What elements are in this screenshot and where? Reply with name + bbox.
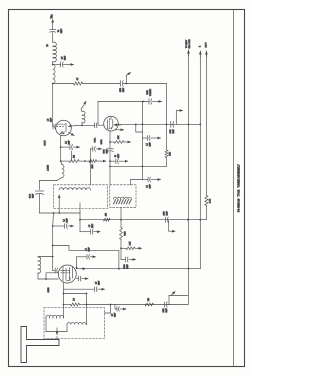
wire plate node y=125.4 — [78, 124, 94, 126]
capacitor C12 series — [165, 217, 167, 222]
ground — [152, 101, 161, 103]
wire y=268.7 IF out — [77, 268, 201, 270]
resistor R11 220 — [145, 303, 154, 306]
wire — [52, 32, 54, 42]
tube V3 cathode — [67, 278, 71, 281]
tube V2 cathode arrow — [115, 129, 124, 131]
wire bus y=304.5 — [87, 304, 188, 306]
tube V3 cathode wire — [63, 283, 65, 294]
node R4 — [109, 141, 111, 143]
node I — [120, 219, 122, 221]
wire y=331.5 — [46, 331, 67, 333]
svg-text:1.5: 1.5 — [96, 282, 98, 285]
node 110 — [110, 304, 112, 306]
bus A arrow — [188, 51, 190, 57]
tube V3 plate — [72, 267, 74, 279]
node H — [53, 212, 55, 214]
tube V2 plate arrow — [114, 124, 121, 126]
bus line B — [199, 51, 201, 269]
wire y=213 — [40, 212, 81, 214]
wire — [120, 240, 122, 260]
node J — [187, 219, 189, 221]
svg-text:1.5: 1.5 — [48, 119, 50, 122]
svg-text:1.5: 1.5 — [86, 248, 88, 251]
svg-text:75Ω: 75Ω — [50, 14, 53, 19]
arrow tuning L6 — [58, 195, 60, 201]
node K — [199, 219, 201, 221]
resistor R4 10K — [110, 141, 114, 143]
wire — [52, 25, 54, 30]
capacitor C11 trimmer — [35, 190, 43, 192]
svg-text:1.5: 1.5 — [64, 219, 66, 222]
tube V2 plate — [112, 120, 114, 128]
svg-text:OSC.: OSC. — [95, 137, 97, 142]
node fine tuning — [142, 101, 144, 103]
tube V1 plate arrow — [69, 124, 79, 127]
ground — [90, 256, 95, 258]
capacitor C24 grid — [53, 270, 55, 272]
wire — [66, 325, 68, 332]
node A — [52, 64, 54, 66]
ground L — [168, 220, 170, 232]
tube V1 ground arrow — [69, 133, 75, 136]
dashed box T1 — [54, 185, 108, 209]
resistor R8 6800 — [120, 220, 122, 228]
svg-text:1.5: 1.5 — [147, 143, 149, 146]
wire — [86, 294, 88, 325]
svg-text:6CY5: 6CY5 — [45, 140, 47, 146]
capacitor C22 — [80, 231, 90, 233]
capacitor C10 20MMF — [110, 160, 115, 162]
svg-text:TO J110Y: TO J110Y — [186, 39, 188, 48]
svg-text:240 V: 240 V — [205, 42, 207, 48]
wire — [45, 318, 47, 332]
dashed box T2 — [110, 185, 136, 208]
inductor L7 shaded slug — [114, 197, 132, 199]
wire — [98, 124, 104, 126]
capacitor C19 series — [164, 302, 166, 307]
capacitor C20 branch y138 — [143, 137, 147, 139]
wire — [166, 158, 168, 167]
capacitor C8 fine tuning — [148, 99, 150, 104]
node loop l — [63, 293, 65, 295]
svg-text:220: 220 — [148, 298, 150, 301]
wire osc grid leak — [90, 161, 92, 185]
arrow to heater B — [175, 111, 177, 125]
wire — [93, 124, 96, 126]
node l8 — [52, 256, 54, 258]
node plate — [76, 267, 78, 269]
wire y=219.7 — [80, 219, 206, 221]
wire — [64, 304, 71, 306]
tube V3 envelope — [58, 265, 76, 283]
IF direction arrow — [80, 268, 86, 270]
wire — [63, 64, 68, 66]
svg-text:TUNING: TUNING — [150, 88, 152, 96]
arrow L3 to B+ — [81, 107, 82, 112]
inductor L8 — [38, 257, 41, 273]
capacitor C17 — [64, 288, 95, 290]
wire — [109, 152, 111, 185]
svg-text:1.5: 1.5 — [62, 57, 64, 60]
node riser — [89, 160, 91, 162]
node n — [45, 278, 47, 280]
wire — [38, 273, 58, 279]
tube V3 grid — [61, 270, 70, 272]
node L — [120, 247, 122, 249]
svg-text:3300: 3300 — [124, 265, 126, 269]
svg-text:1.5: 1.5 — [112, 314, 114, 317]
capacitor C1 — [50, 29, 56, 31]
ground — [151, 137, 161, 139]
resistor R9 4.7K — [121, 247, 126, 249]
resistor R6b — [89, 160, 97, 163]
wire — [83, 83, 121, 85]
tube V2 envelope — [104, 116, 119, 131]
wire y=166.4 — [110, 165, 167, 167]
ground — [94, 231, 100, 233]
svg-text:FINE: FINE — [147, 90, 149, 95]
ground — [129, 259, 136, 261]
node if 118 — [118, 268, 120, 270]
bus line A — [188, 50, 190, 305]
svg-text:1000: 1000 — [170, 130, 172, 134]
inductor L6 — [59, 188, 91, 190]
page border frame — [9, 10, 245, 367]
riser arrow — [169, 295, 188, 297]
wire x=142.5 — [142, 102, 144, 180]
svg-text:1500: 1500 — [120, 88, 122, 92]
node r10b — [86, 304, 88, 306]
node x80 — [79, 219, 81, 221]
wire — [39, 181, 41, 190]
svg-text:4.5MH: 4.5MH — [48, 164, 50, 170]
inductor L9 — [46, 315, 64, 318]
wire — [71, 151, 73, 161]
bus C arrow — [205, 52, 207, 58]
wire — [46, 273, 58, 279]
wire — [79, 203, 81, 213]
wire corner down x=166.5 — [166, 84, 168, 151]
node loop r — [86, 293, 88, 295]
tube V1 screen — [58, 123, 66, 125]
resistor R10 7.5 — [71, 303, 80, 306]
wire grid V1 — [52, 84, 54, 127]
node if A — [188, 268, 190, 270]
arrow to AGC — [125, 76, 127, 84]
wire — [143, 179, 149, 181]
bus line C — [205, 51, 207, 196]
node x142 y124 — [142, 124, 144, 126]
svg-text:7.5: 7.5 — [74, 298, 76, 301]
capacitor C18 — [115, 305, 117, 310]
wire — [168, 304, 169, 306]
node 20mmf branch — [109, 160, 111, 162]
node r6 — [84, 160, 86, 162]
node r10a — [63, 304, 65, 306]
ground — [96, 148, 102, 150]
capacitor C21 y179 — [147, 177, 149, 182]
wire — [39, 194, 41, 213]
svg-text:220: 220 — [74, 155, 76, 158]
tube V1 grid — [57, 126, 64, 128]
riser cap 90.2 — [89, 149, 91, 161]
tube V2 pins — [108, 117, 112, 129]
ground — [119, 160, 128, 162]
bus B arrow — [199, 52, 201, 58]
capacitor C23 — [53, 225, 64, 227]
ground — [73, 146, 79, 148]
capacitor C16 — [77, 278, 79, 280]
ground — [151, 179, 160, 181]
node E — [199, 124, 201, 126]
node B — [52, 83, 54, 85]
wire x=80 down — [79, 213, 81, 232]
arrow end — [101, 160, 106, 162]
tube V2 cathode — [108, 127, 112, 129]
wire — [81, 123, 83, 126]
tube V2 grid — [108, 119, 110, 128]
node H2 — [58, 212, 60, 214]
wire — [53, 64, 61, 66]
inductor L1 — [53, 42, 57, 62]
node x110 y166 — [109, 166, 111, 168]
capacitor C14 — [121, 259, 125, 261]
svg-text:S20 & P25: S20 & P25 — [189, 39, 191, 48]
node jog — [135, 124, 137, 126]
svg-text:1.5: 1.5 — [89, 225, 91, 228]
ground — [124, 141, 131, 143]
inductor L5 — [62, 165, 64, 178]
capacitor C2 — [60, 62, 62, 67]
wire jog — [136, 124, 143, 132]
tube V3 pins — [63, 267, 70, 281]
capacitor C4 grid — [52, 126, 54, 128]
wire x=52.7 down — [52, 213, 55, 226]
resistor R5 2.7K — [205, 196, 208, 206]
tube V2 cathode wire — [109, 131, 111, 149]
wire top loop — [64, 293, 87, 295]
wire — [63, 294, 65, 319]
antenna terminal arrow — [52, 20, 54, 26]
inner right border line — [233, 10, 235, 367]
wire — [52, 62, 54, 65]
node y124 x166 — [166, 124, 168, 126]
dashed box T3 — [44, 308, 105, 339]
wire — [61, 161, 62, 164]
svg-text:6800: 6800 — [125, 231, 127, 235]
wire — [40, 178, 62, 181]
capacitor C3 1500MMF — [119, 81, 121, 87]
arrow T3 down — [56, 328, 58, 335]
node x142 y166 — [142, 166, 144, 168]
ground — [120, 308, 126, 310]
resistor R6a — [69, 160, 79, 163]
inductor L3 plate coil — [82, 111, 85, 123]
tube V1 plate — [65, 124, 67, 132]
svg-text:4500: 4500 — [92, 164, 94, 168]
node L3 tap — [81, 125, 83, 127]
resistor R7 270 — [103, 218, 110, 221]
svg-text:1.5: 1.5 — [66, 141, 68, 144]
node cath — [60, 160, 62, 162]
svg-text:1000: 1000 — [163, 309, 165, 313]
tube V1 cathode — [61, 132, 64, 134]
ground — [68, 225, 74, 227]
wire — [56, 337, 58, 340]
wire — [38, 256, 53, 259]
wire y=161.1 — [61, 160, 69, 162]
svg-text:1.5: 1.5 — [147, 185, 149, 188]
ground lug outline — [21, 327, 59, 363]
wire — [97, 160, 101, 162]
inductor L10 — [67, 323, 86, 325]
wire out — [105, 305, 111, 314]
capacitor C5 cathode bypass — [61, 146, 70, 148]
node v3 corner — [52, 245, 54, 247]
wire — [120, 207, 122, 219]
capacitor C6 osc grid — [94, 123, 96, 128]
resistor R2 10K — [165, 150, 168, 158]
tube V3 grid2 — [61, 272, 70, 274]
riser plate — [76, 257, 78, 268]
wire — [53, 83, 74, 85]
inductor L2 — [53, 65, 55, 84]
ground — [68, 64, 74, 66]
node grid cap branch — [52, 225, 54, 227]
wire V2 plate out y=124.4 — [116, 123, 201, 125]
ground — [98, 288, 105, 290]
wire — [79, 160, 89, 162]
svg-text:6BN6: 6BN6 — [48, 287, 50, 293]
wire y=101.5 — [98, 101, 149, 103]
svg-text:1000: 1000 — [164, 212, 166, 216]
wire grid — [52, 246, 54, 271]
svg-text:20: 20 — [115, 155, 117, 157]
tube V1 envelope — [56, 120, 72, 136]
ground — [135, 247, 142, 249]
wire — [123, 83, 166, 85]
svg-text:54-4516-10 TV-10 TUNER ASS: 54-4516-10 TV-10 TUNER ASSEMBLY — [237, 164, 241, 212]
tube V1 heater — [61, 132, 64, 134]
capacitor C15 — [77, 256, 87, 258]
node cath cap — [60, 146, 62, 148]
svg-text:2.7K: 2.7K — [210, 198, 212, 203]
tube V1 cathode wire — [60, 136, 62, 162]
node C3out — [125, 83, 127, 85]
node D — [188, 124, 190, 126]
svg-text:3300: 3300 — [104, 150, 106, 154]
wire corner x=98 — [97, 102, 99, 126]
wire — [131, 180, 143, 185]
wire B+ top — [53, 246, 119, 269]
resistor R1 — [74, 82, 83, 85]
svg-text:270: 270 — [106, 213, 108, 216]
ground — [82, 278, 88, 280]
capacitor C9 1000MMF — [170, 122, 172, 128]
capacitor C7 3300MMF — [107, 148, 114, 150]
svg-text:MMF: MMF — [61, 28, 63, 33]
wire corner C to y=219.7 — [205, 206, 207, 220]
svg-text:0.5-3: 0.5-3 — [30, 194, 32, 198]
wire — [58, 201, 60, 214]
